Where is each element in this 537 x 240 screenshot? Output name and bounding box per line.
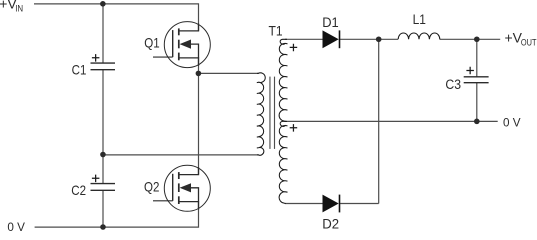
svg-text:D2: D2: [322, 216, 339, 231]
svg-text:0 V: 0 V: [503, 115, 521, 129]
svg-text:OUT: OUT: [521, 38, 537, 48]
svg-text:C2: C2: [71, 183, 86, 198]
svg-text:Q1: Q1: [144, 36, 159, 51]
svg-text:L1: L1: [413, 11, 426, 27]
svg-text:C3: C3: [445, 76, 461, 92]
svg-text:C1: C1: [72, 62, 87, 77]
svg-text:D1: D1: [322, 15, 339, 30]
svg-text:T1: T1: [269, 23, 283, 39]
svg-text:IN: IN: [15, 3, 23, 14]
svg-text:0 V: 0 V: [7, 220, 25, 232]
svg-text:Q2: Q2: [144, 179, 159, 194]
svg-text:+V: +V: [505, 30, 523, 46]
